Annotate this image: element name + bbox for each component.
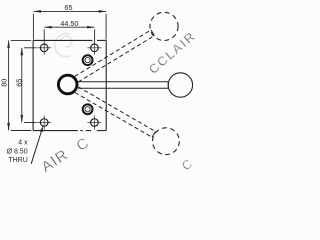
lever middle (solid position) [78, 82, 168, 88]
svg-text:44.50: 44.50 [60, 19, 78, 28]
pivot boss ring [58, 75, 77, 94]
mounting hole bottom-right [87, 116, 101, 130]
svg-text:4 x: 4 x [18, 139, 28, 146]
dimension 65 top [33, 11, 106, 39]
detent hole upper [83, 55, 93, 65]
dimension 44.50 top [44, 27, 94, 41]
svg-text:80: 80 [0, 79, 8, 87]
mounting hole top-left [37, 41, 51, 55]
leader line to hole [31, 130, 42, 164]
knob ball lower (dashed) [153, 128, 180, 155]
plate outline [33, 40, 106, 130]
dimension 65 left [22, 48, 37, 123]
mounting hole top-right [87, 41, 101, 55]
lever lower (dashed position) [75, 87, 155, 138]
svg-text:Ø 8.50: Ø 8.50 [7, 148, 28, 155]
svg-text:65: 65 [15, 79, 24, 87]
watermark swirl logo [55, 34, 72, 57]
knob ball upper (dashed) [150, 12, 178, 40]
svg-text:THRU: THRU [8, 157, 27, 164]
detent hole lower [83, 104, 93, 114]
svg-text:65: 65 [65, 3, 73, 12]
knob ball middle [168, 73, 192, 97]
lever upper (dashed position) [75, 30, 155, 82]
mounting hole bottom-left [37, 116, 51, 130]
dimension 80 left [9, 40, 32, 130]
